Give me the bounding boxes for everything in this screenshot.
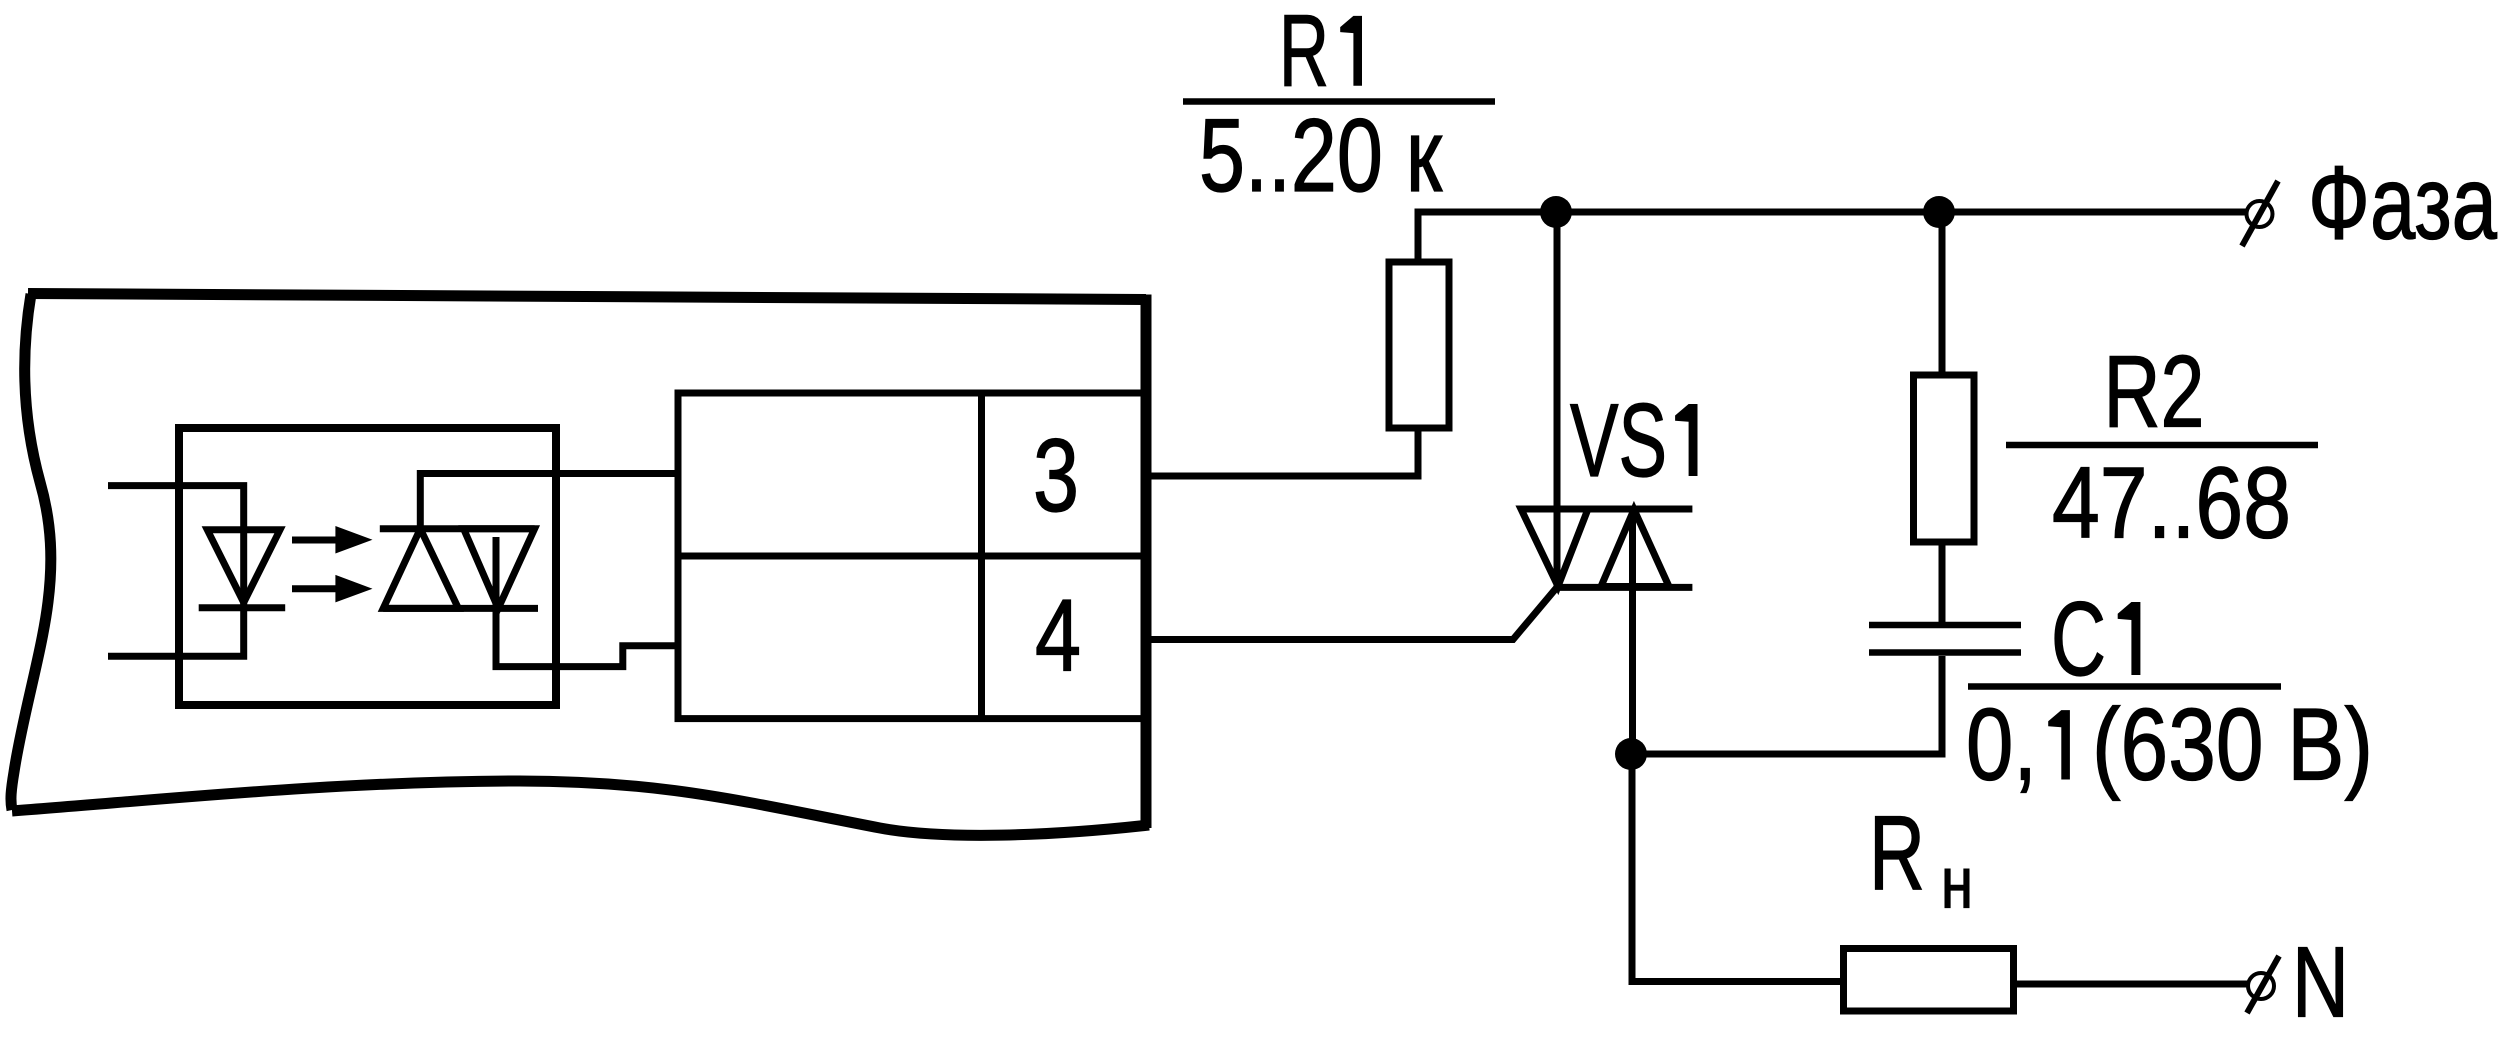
svg-text:3: 3 <box>1033 418 1079 534</box>
svg-text:C: C <box>2051 581 2106 698</box>
svg-text:VS: VS <box>1570 383 1667 499</box>
svg-text:н: н <box>1941 843 1973 923</box>
svg-text:(630 В): (630 В) <box>2092 688 2373 802</box>
svg-text:Фаза: Фаза <box>2308 146 2497 262</box>
svg-text:4: 4 <box>1035 579 1081 693</box>
svg-text:R: R <box>1279 0 1329 108</box>
svg-text:R2: R2 <box>2104 335 2205 449</box>
svg-text:0,: 0, <box>1966 688 2037 802</box>
svg-text:N: N <box>2292 926 2349 1038</box>
svg-text:5..20 к: 5..20 к <box>1199 98 1443 214</box>
svg-text:R: R <box>1869 794 1925 912</box>
svg-text:47..68: 47..68 <box>2052 448 2291 560</box>
